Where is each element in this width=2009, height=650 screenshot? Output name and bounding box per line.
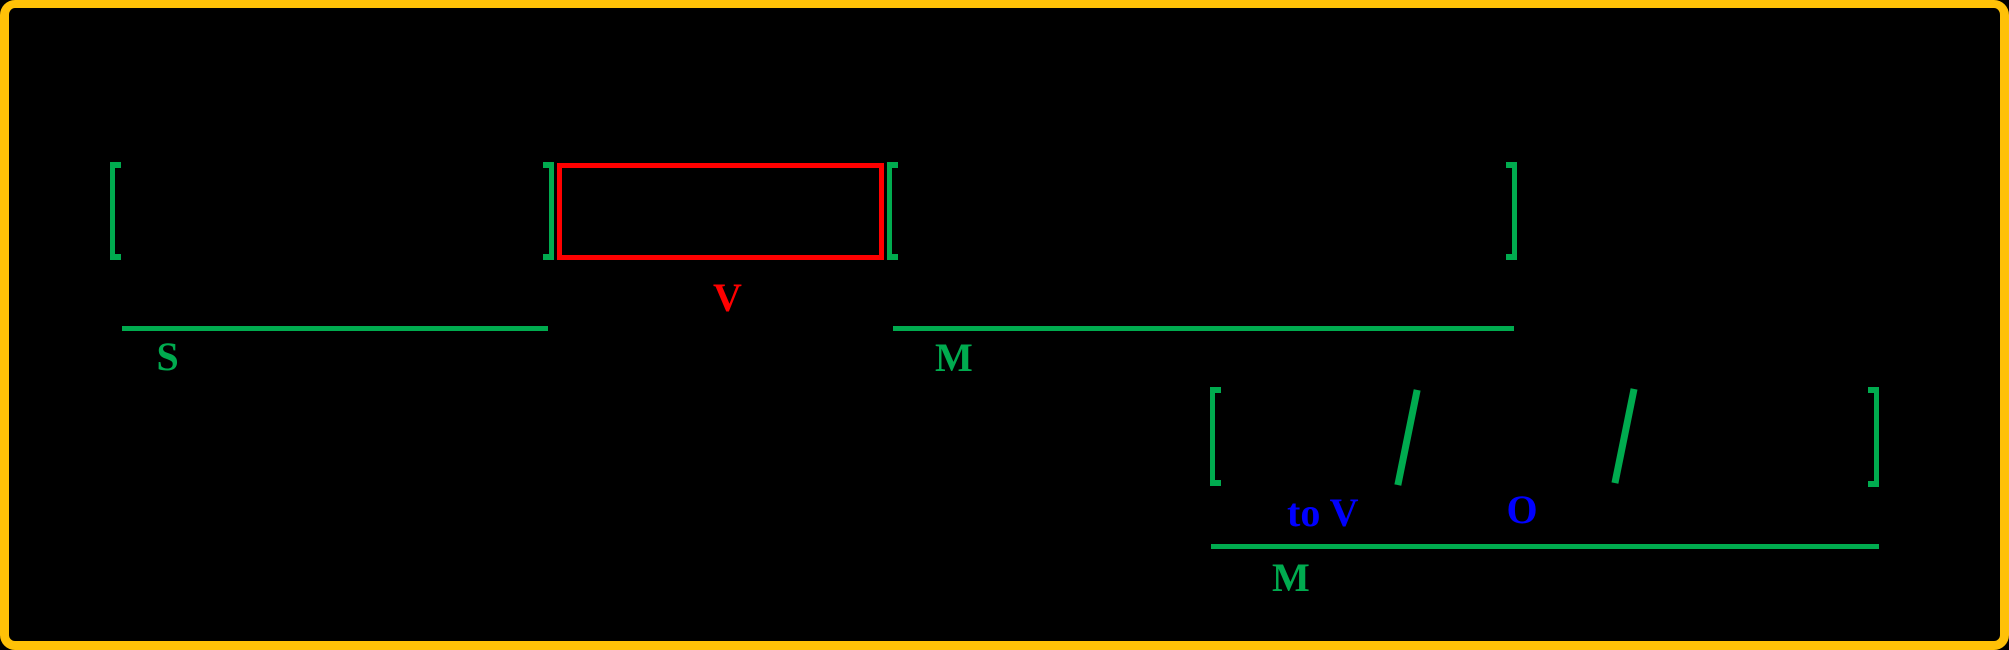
label M1 (935, 338, 973, 378)
underline S (122, 326, 548, 331)
verb red box (557, 163, 884, 260)
bracket ] inner close (1868, 387, 1879, 487)
underline M2 (1211, 544, 1879, 549)
bracket ] subject close (543, 162, 554, 260)
slash 1 (1394, 389, 1420, 485)
label O (1507, 490, 1538, 530)
bracket ] modifier close (1506, 162, 1517, 260)
bracket [ modifier open (887, 162, 898, 260)
slash 2 (1612, 388, 1638, 483)
label to V (1287, 493, 1358, 533)
bracket [ inner open (1210, 387, 1221, 486)
label V (713, 278, 742, 318)
bracket [ subject open (110, 162, 121, 260)
label S (157, 337, 179, 377)
underline M1 (893, 326, 1514, 331)
label M2 (1272, 558, 1310, 598)
